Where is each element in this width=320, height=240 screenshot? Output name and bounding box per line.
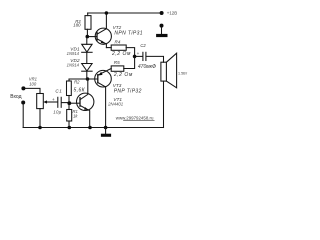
node base VT1 (C1 / R2 / R1 / VT1 base) <box>67 101 71 105</box>
output node (R4 / R5 / C2) <box>133 55 137 59</box>
svg-text:2,2 Ом: 2,2 Ом <box>111 51 131 57</box>
svg-text:100: 100 <box>29 81 37 86</box>
svg-text:+: + <box>137 51 140 56</box>
transistor VT2 NPN TiP31 <box>95 13 143 48</box>
wire R2 top to node B to VT3 base <box>69 79 98 81</box>
svg-text:R5: R5 <box>114 60 120 65</box>
resistor R5 2,2 Ом <box>111 58 134 78</box>
power terminal +12V <box>160 10 178 15</box>
svg-text:180: 180 <box>73 22 81 27</box>
wire node to VT1 base <box>71 102 80 104</box>
transistor VT3 PNP TiP32 <box>95 69 142 128</box>
svg-text:PNP TiP32: PNP TiP32 <box>114 88 142 94</box>
wire input upper to VR1 <box>25 88 40 93</box>
svg-text:5,6К: 5,6К <box>74 87 86 93</box>
wire top +12V rail <box>88 12 162 14</box>
svg-text:10μ: 10μ <box>53 110 61 115</box>
wire C2 to speaker <box>146 56 163 62</box>
svg-text:1.5Вт: 1.5Вт <box>178 71 187 75</box>
svg-text:C2: C2 <box>140 43 146 48</box>
wire speaker to ground bus <box>163 81 165 127</box>
svg-text:+12В: +12В <box>167 10 177 15</box>
svg-text:470мкФ: 470мкФ <box>138 64 156 70</box>
svg-text:+: + <box>52 97 55 102</box>
wire VD1 to VD2 <box>86 52 88 63</box>
svg-text:NPN TiP31: NPN TiP31 <box>114 31 143 37</box>
resistor R2 5,6К <box>67 80 86 102</box>
power minus chassis stub <box>156 24 167 38</box>
svg-text:R4: R4 <box>115 39 121 44</box>
transistor VT1 2N4401 <box>77 81 124 128</box>
svg-text:R2: R2 <box>74 80 80 85</box>
ground bus <box>23 127 163 129</box>
wire node A to VT2 base <box>89 36 97 38</box>
svg-text:2N4401: 2N4401 <box>107 101 124 106</box>
svg-text:1N914: 1N914 <box>67 62 80 67</box>
wire input lower to bus <box>22 105 24 128</box>
resistor R1 1k <box>67 105 79 127</box>
svg-text:www.299792458.ru: www.299792458.ru <box>116 115 154 120</box>
capacitor C1 10μ <box>52 88 68 114</box>
svg-text:2,2 Ом: 2,2 Ом <box>113 72 133 78</box>
ground <box>101 128 111 137</box>
junction VT1 emitter <box>88 126 92 130</box>
svg-text:VT2: VT2 <box>113 25 122 30</box>
input terminal upper <box>21 86 25 90</box>
resistor R3 <box>73 13 91 35</box>
node VT2 collector on rail <box>105 11 109 15</box>
node A (R3 / VT2 base / VD1 anode) <box>86 35 90 39</box>
svg-text:Вход: Вход <box>10 94 21 100</box>
diode VD2 1N914 <box>67 58 92 71</box>
diode VD1 1N914 <box>67 38 92 56</box>
svg-text:1N914: 1N914 <box>67 51 80 56</box>
speaker 1.5Вт <box>161 53 188 88</box>
node B (VD2 / R2 / VT1 collector / VT3 base) <box>86 77 90 81</box>
watermark www.299792458.ru <box>116 115 154 120</box>
junction R1 bottom <box>68 126 72 130</box>
input terminal lower <box>21 101 25 105</box>
svg-text:VT3: VT3 <box>113 83 122 88</box>
junction ground / VT3 collector <box>104 126 108 130</box>
svg-text:C1: C1 <box>55 88 62 93</box>
junction VR1 bottom <box>38 126 42 130</box>
capacitor C2 470мкФ <box>136 43 156 70</box>
resistor R4 2,2 Ом <box>106 39 134 57</box>
wire VD2 to node B <box>86 71 88 79</box>
potentiometer VR1 100 <box>29 77 58 128</box>
